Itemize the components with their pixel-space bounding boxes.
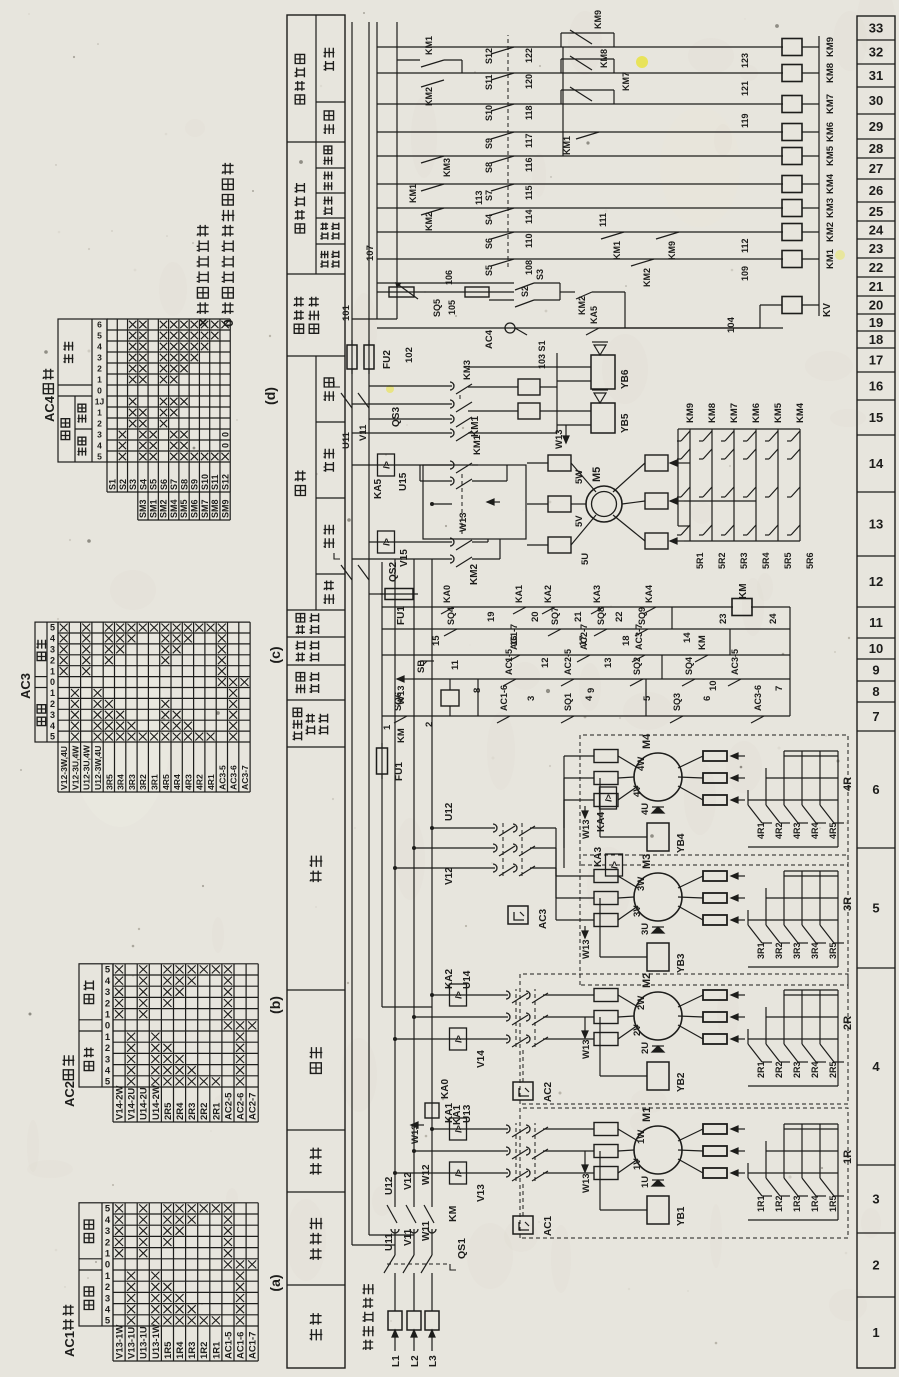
svg-text:3: 3 (97, 353, 102, 363)
svg-text:SM3: SM3 (138, 499, 148, 518)
hoist phase-swap loop (423, 465, 526, 539)
svg-text:4R: 4R (842, 777, 854, 791)
svg-text:U13-1U: U13-1U (139, 1326, 150, 1359)
contactor coil KM4 (782, 176, 802, 193)
svg-text:3R3: 3R3 (127, 774, 137, 790)
svg-text:(d): (d) (262, 387, 278, 405)
svg-text:5: 5 (50, 623, 55, 633)
svg-text:AC2-5: AC2-5 (563, 649, 573, 675)
svg-text:QS1: QS1 (456, 1238, 468, 1259)
svg-text:KM9: KM9 (685, 403, 696, 423)
svg-text:W13: W13 (458, 512, 469, 532)
svg-text:KM: KM (447, 1205, 459, 1222)
svg-text:1: 1 (382, 724, 393, 730)
header cell anquanbaohu (287, 636, 345, 638)
svg-text:I>: I> (454, 1035, 464, 1043)
svg-text:15: 15 (431, 635, 442, 646)
svg-text:1U: 1U (640, 1176, 651, 1188)
svg-text:116: 116 (524, 157, 534, 172)
branch feed wires motor M1 (393, 1171, 397, 1175)
svg-text:33: 33 (869, 21, 883, 36)
svg-text:KM4: KM4 (825, 173, 836, 194)
svg-text:I>: I> (382, 461, 392, 469)
svg-text:108: 108 (524, 260, 534, 275)
table d SM label column (138, 519, 230, 521)
svg-text:SQ4: SQ4 (446, 607, 456, 625)
slip-ring brushes (huadong jidianshua) (363, 1340, 374, 1350)
svg-text:1: 1 (97, 408, 102, 418)
svg-text:25: 25 (869, 204, 883, 219)
svg-text:U12: U12 (444, 802, 455, 821)
svg-text:W13: W13 (581, 1039, 592, 1059)
svg-text:KM9: KM9 (825, 37, 836, 57)
svg-text:KM5: KM5 (773, 402, 784, 423)
svg-text:4: 4 (97, 441, 102, 451)
svg-text:AC3-7: AC3-7 (634, 624, 644, 650)
rotor resistor bank 1R (731, 1172, 745, 1174)
branch feed wires motor M2 (393, 1037, 397, 1041)
header subcell zhidong (324, 157, 333, 165)
bridge controller contacts (shared M3 M4) (393, 866, 397, 870)
svg-text:5: 5 (105, 1204, 111, 1215)
master contact S11 (491, 73, 514, 80)
svg-text:SQ5: SQ5 (432, 299, 442, 317)
hoist motor M5 (571, 515, 596, 545)
svg-text:4U: 4U (640, 803, 651, 815)
header group zhugou-dingzi (287, 141, 345, 143)
svg-text:SM8: SM8 (210, 499, 220, 518)
svg-text:AC2-7: AC2-7 (248, 1093, 259, 1120)
svg-text:2R4: 2R4 (810, 1061, 820, 1078)
svg-text:111: 111 (598, 213, 608, 227)
svg-text:U12: U12 (384, 1176, 395, 1195)
svg-text:3: 3 (50, 645, 55, 655)
svg-text:122: 122 (524, 48, 534, 63)
table b header (79, 964, 113, 1087)
svg-text:W12: W12 (421, 1164, 432, 1185)
svg-text:2: 2 (105, 998, 110, 1009)
svg-text:KA4: KA4 (596, 812, 607, 832)
table c header (35, 622, 58, 742)
bus W11 segment (431, 1273, 433, 1311)
interlock contact KM2 on KM1 rung (631, 259, 654, 266)
svg-text:13: 13 (603, 657, 614, 668)
svg-text:KM: KM (396, 728, 407, 743)
svg-text:V12: V12 (444, 867, 455, 885)
header subcell jiasu (324, 61, 334, 71)
svg-text:1V: 1V (632, 1158, 643, 1170)
master contact S4 (491, 208, 514, 215)
control rail U11 tap (352, 1244, 395, 1246)
svg-text:YB4: YB4 (676, 833, 687, 853)
rung SB stop chain (382, 654, 790, 656)
svg-text:5: 5 (872, 901, 879, 916)
main contactor KM main contacts (391, 1229, 399, 1233)
svg-text:SQ9: SQ9 (637, 607, 647, 625)
svg-text:KM1: KM1 (408, 184, 418, 203)
svg-text:9: 9 (586, 688, 597, 693)
svg-text:104: 104 (726, 316, 737, 333)
svg-text:23: 23 (869, 241, 883, 256)
svg-text:24: 24 (768, 613, 779, 624)
svg-text:U12-3W,4U: U12-3W,4U (93, 746, 103, 790)
svg-text:1: 1 (50, 688, 55, 698)
svg-text:4V: 4V (632, 785, 643, 797)
svg-text:3R1: 3R1 (756, 942, 766, 959)
table c grid (58, 791, 250, 793)
header subcell dianyuan (316, 573, 345, 575)
header group zhugou-zhuanzi (315, 15, 317, 142)
motor M1 stator wires (543, 1172, 594, 1174)
svg-text:KA0: KA0 (440, 1079, 451, 1099)
svg-text:4: 4 (105, 976, 111, 987)
svg-text:I>: I> (454, 1125, 464, 1133)
header subcell xiajiang (316, 192, 345, 194)
rotor resistor bank 4R (731, 799, 745, 801)
brake economy resistors (518, 403, 540, 419)
svg-text:5R5: 5R5 (783, 552, 793, 569)
svg-text:S3: S3 (128, 479, 138, 490)
interlock contact KM1 on KM2 rung (601, 232, 624, 239)
svg-text:24: 24 (869, 223, 884, 238)
svg-text:KV: KV (822, 303, 833, 317)
svg-text:AC1-6: AC1-6 (499, 685, 509, 711)
svg-text:29: 29 (869, 119, 883, 134)
svg-text:16: 16 (509, 635, 520, 646)
svg-text:AC3-6: AC3-6 (753, 685, 763, 711)
svg-text:21: 21 (869, 279, 883, 294)
accel self-hold bypass contacts KM7 KM8 KM9 (560, 90, 562, 104)
brake contactor KM1 contacts (352, 432, 452, 434)
svg-text:QS3: QS3 (391, 407, 402, 427)
table d header (58, 319, 107, 462)
svg-text:KA5: KA5 (373, 479, 384, 499)
svg-text:W13: W13 (581, 1173, 592, 1193)
svg-text:1: 1 (105, 1032, 111, 1043)
svg-text:S10: S10 (200, 474, 210, 490)
svg-text:4: 4 (105, 1215, 111, 1226)
header subcell shiyabaohu (316, 243, 345, 245)
svg-text:1: 1 (105, 1010, 111, 1021)
svg-text:5R6: 5R6 (805, 552, 815, 569)
svg-text:AC3: AC3 (538, 909, 549, 929)
svg-text:3R5: 3R5 (828, 942, 838, 959)
svg-text:3R3: 3R3 (792, 942, 802, 959)
svg-text:YB2: YB2 (676, 1072, 687, 1092)
svg-text:KM1: KM1 (424, 36, 434, 55)
control rung KM2 (377, 231, 783, 233)
header subcell shangsheng (316, 497, 345, 499)
svg-text:2R: 2R (842, 1016, 854, 1030)
svg-text:S5: S5 (484, 265, 494, 276)
svg-text:FU1: FU1 (396, 606, 407, 625)
svg-text:I>: I> (454, 1169, 464, 1177)
svg-text:5R4: 5R4 (761, 552, 771, 569)
svg-text:30: 30 (869, 93, 883, 108)
branch enclosure dashed M2 (520, 974, 848, 1104)
header cell liansuo-xianwei-baohu (287, 699, 345, 701)
svg-text:4R2: 4R2 (195, 774, 205, 790)
svg-text:KM7: KM7 (729, 403, 740, 423)
svg-text:0: 0 (220, 319, 236, 327)
svg-text:AC1-6: AC1-6 (235, 1332, 246, 1359)
contact AC3-6 on rung A (751, 716, 764, 723)
svg-text:KA1: KA1 (514, 585, 524, 603)
svg-text:KM2: KM2 (642, 268, 652, 287)
svg-text:W13: W13 (581, 819, 592, 839)
svg-text:AC2: AC2 (62, 1081, 77, 1107)
master contact S9 (491, 132, 514, 139)
svg-text:2U: 2U (640, 1042, 651, 1054)
svg-text:KM2: KM2 (825, 222, 836, 242)
svg-text:KM1: KM1 (472, 434, 483, 455)
svg-text:5R1: 5R1 (695, 552, 705, 569)
contact KA5 on KV rung (586, 328, 599, 335)
svg-text:I>: I> (382, 538, 392, 546)
overcurrent relay KA4 (600, 787, 617, 809)
svg-text:S11: S11 (484, 74, 494, 90)
svg-text:123: 123 (740, 53, 750, 68)
svg-text:2: 2 (105, 1043, 110, 1054)
svg-text:S8: S8 (484, 162, 494, 173)
svg-text:L2: L2 (410, 1355, 421, 1367)
control rung KM5 (377, 155, 783, 157)
svg-text:AC2-6: AC2-6 (235, 1093, 246, 1120)
svg-text:4W: 4W (636, 757, 647, 771)
branch enclosure dashed M4 (580, 735, 848, 865)
svg-text:5: 5 (105, 965, 111, 976)
svg-text:×: × (195, 318, 212, 327)
rotor slip-ring leads M2 (678, 1025, 703, 1039)
svg-text:S4: S4 (138, 479, 148, 490)
svg-text:KA2: KA2 (543, 585, 553, 603)
svg-text:SQ8: SQ8 (596, 607, 606, 625)
svg-text:AC3-5: AC3-5 (730, 649, 740, 675)
hoist fuse FU1 (385, 589, 413, 600)
svg-text:22: 22 (614, 611, 625, 622)
svg-text:KA3: KA3 (593, 847, 604, 867)
svg-text:11: 11 (450, 659, 461, 670)
control rung KM3 (377, 207, 783, 209)
svg-text:2R2: 2R2 (199, 1103, 210, 1120)
svg-text:I>: I> (454, 991, 464, 999)
svg-text:11: 11 (869, 615, 883, 630)
svg-text:5: 5 (105, 1077, 111, 1088)
svg-text:SQ4: SQ4 (684, 657, 694, 675)
svg-text:26: 26 (869, 183, 883, 198)
svg-text:4R1: 4R1 (206, 774, 216, 790)
svg-text:AC3-6: AC3-6 (229, 765, 239, 790)
hoist switch QS2 (341, 565, 352, 580)
svg-text:SQ3: SQ3 (672, 693, 682, 711)
svg-text:3: 3 (105, 1054, 110, 1065)
control rung KM4 (377, 183, 783, 185)
svg-text:2: 2 (105, 1282, 110, 1293)
svg-text:3R4: 3R4 (810, 942, 820, 959)
svg-text:119: 119 (740, 113, 750, 128)
svg-text:U14: U14 (462, 970, 473, 989)
svg-text:2R2: 2R2 (774, 1061, 784, 1078)
svg-text:S7: S7 (169, 479, 179, 490)
svg-text:1: 1 (50, 666, 55, 676)
brake switch QS3 (341, 393, 352, 408)
svg-text:3: 3 (105, 987, 110, 998)
svg-text:2R3: 2R3 (187, 1103, 198, 1120)
reversing contactor contacts M1 (506, 1169, 510, 1177)
svg-text:2V: 2V (632, 1024, 643, 1036)
svg-text:3: 3 (872, 1192, 879, 1207)
svg-text:V12-3W,4U: V12-3W,4U (59, 746, 69, 790)
branch enclosure dashed M1 (520, 1108, 848, 1238)
svg-text:KM9: KM9 (593, 10, 603, 29)
accel enable contact KM1 (576, 132, 599, 139)
header cell zongdianyuan (287, 1191, 345, 1193)
svg-text:KM3: KM3 (825, 198, 836, 218)
svg-text:V13-1W: V13-1W (114, 1325, 125, 1359)
svg-text:KM6: KM6 (825, 122, 836, 142)
svg-text:U11: U11 (341, 431, 352, 449)
svg-text:5U: 5U (580, 553, 591, 565)
stator feed rails (351, 369, 353, 392)
upper contact row KM1 (421, 184, 444, 191)
bus U11 segment (394, 1273, 396, 1311)
svg-text:32: 32 (869, 45, 883, 60)
contactor coil KM3 (782, 200, 802, 217)
svg-text:19: 19 (486, 611, 497, 622)
svg-text:121: 121 (740, 81, 750, 96)
svg-text:1R5: 1R5 (828, 1195, 838, 1212)
svg-text:20: 20 (869, 298, 883, 313)
control rail V11 tap (369, 1234, 414, 1236)
svg-text:3R2: 3R2 (138, 774, 148, 790)
control rung KM6 (377, 131, 783, 133)
svg-text:KA1: KA1 (452, 1105, 463, 1125)
svg-text:KM2: KM2 (424, 212, 434, 231)
svg-text:0: 0 (105, 1260, 110, 1271)
svg-text:2: 2 (424, 722, 435, 727)
svg-text:S4: S4 (484, 214, 494, 225)
svg-text:YB3: YB3 (676, 953, 687, 973)
rotor terminal bars M1 (703, 1168, 727, 1178)
brake YB6 (591, 355, 615, 389)
bus U12 (394, 559, 396, 1207)
coil return rail (818, 36, 820, 316)
svg-text:114: 114 (524, 209, 534, 224)
svg-text:6: 6 (872, 782, 879, 797)
svg-text:112: 112 (740, 238, 750, 253)
svg-text:SM9: SM9 (220, 499, 230, 518)
svg-text:21: 21 (573, 611, 584, 622)
header cell guoliubaohu (287, 609, 345, 611)
svg-text:2R1: 2R1 (211, 1102, 222, 1120)
svg-text:S11: S11 (210, 474, 220, 490)
svg-text:S8: S8 (179, 479, 189, 490)
svg-text:FU2: FU2 (382, 350, 393, 369)
interlock contact KM9 on KM2 rung (656, 232, 679, 239)
svg-text:AC1-7: AC1-7 (248, 1332, 259, 1359)
svg-text:18: 18 (869, 332, 883, 347)
header cell dianyuan (287, 1284, 345, 1286)
svg-text:2: 2 (872, 1258, 879, 1273)
svg-text:1W: 1W (636, 1130, 647, 1144)
svg-text:KA4: KA4 (644, 585, 654, 603)
svg-text:3R1: 3R1 (149, 774, 159, 790)
KA0 overcurrent relay on bus (425, 1103, 439, 1118)
svg-text:2R3: 2R3 (792, 1061, 802, 1078)
svg-text:KM2: KM2 (469, 563, 480, 585)
svg-text:3: 3 (526, 696, 537, 701)
svg-text:(a): (a) (267, 1274, 283, 1291)
hoist up contactor KM1 contacts (450, 477, 454, 485)
svg-text:S2: S2 (118, 479, 128, 490)
svg-text:22: 22 (869, 260, 883, 275)
rung overcurrent relay contacts + KM coil (382, 606, 733, 608)
wire W11 (431, 1229, 433, 1255)
table d grid (107, 491, 230, 493)
rotor resistor bank 3R (731, 919, 745, 921)
table a grid (113, 1360, 258, 1362)
svg-text:1R5: 1R5 (163, 1341, 174, 1359)
svg-text:KM9: KM9 (667, 241, 677, 260)
knife switch QS1 (384, 1255, 395, 1273)
motor M2 circle (618, 1025, 638, 1039)
svg-text:5R2: 5R2 (717, 552, 727, 569)
svg-text:19: 19 (869, 315, 883, 330)
branch enclosure dashed M3 (580, 855, 848, 985)
svg-text:105: 105 (447, 300, 457, 315)
svg-text:103 S1: 103 S1 (537, 340, 547, 369)
svg-text:AC4: AC4 (484, 329, 495, 349)
svg-text:12: 12 (869, 574, 883, 589)
svg-text:113: 113 (474, 190, 484, 205)
bridge wiring to motors M3 M4 (530, 867, 556, 869)
svg-text:AC1: AC1 (62, 1331, 77, 1357)
svg-text:S7: S7 (484, 190, 494, 201)
rung KM with SQ6 (382, 715, 790, 717)
svg-text:4R5: 4R5 (828, 822, 838, 839)
svg-text:U12-3U,4W: U12-3U,4W (82, 744, 92, 790)
svg-text:V13: V13 (476, 1184, 487, 1202)
svg-text:KM8: KM8 (707, 403, 718, 423)
trip wire W13 arrow M2 (584, 1026, 586, 1038)
thermal elements M3 (594, 914, 618, 927)
svg-text:V12-3U,4W: V12-3U,4W (70, 745, 80, 790)
svg-text:1R3: 1R3 (187, 1342, 198, 1359)
control rung KM8 (377, 72, 783, 74)
rotor terminal bars M2 (703, 1034, 727, 1044)
control fuse FU1 (377, 748, 388, 774)
svg-text:1R2: 1R2 (199, 1342, 210, 1359)
undervoltage relay KV coil (782, 297, 802, 314)
svg-text:117: 117 (524, 133, 534, 148)
svg-text:KM2: KM2 (424, 87, 434, 106)
connector AC2 (513, 1082, 533, 1100)
svg-text:W13: W13 (410, 1124, 421, 1144)
header cell dache (287, 746, 345, 748)
svg-text:S1: S1 (108, 479, 118, 490)
svg-text:4: 4 (584, 695, 595, 701)
master contact S10 (491, 104, 514, 111)
svg-text:W11: W11 (421, 1221, 432, 1241)
svg-text:KM6: KM6 (751, 403, 762, 423)
svg-text:SM2: SM2 (159, 499, 169, 518)
svg-text:2: 2 (50, 655, 55, 665)
svg-text:KA2: KA2 (444, 969, 455, 989)
svg-text:27: 27 (869, 161, 883, 176)
brake YB5 (591, 403, 615, 433)
svg-text:5: 5 (97, 452, 102, 462)
master contact S5 (491, 259, 514, 266)
